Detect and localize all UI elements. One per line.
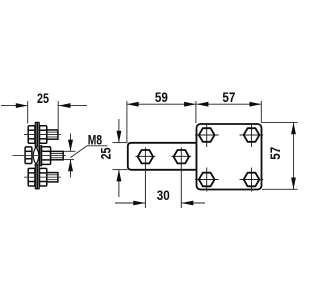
plate hole P3 centerlines bbox=[195, 168, 219, 192]
svg-text:59: 59 bbox=[155, 90, 168, 105]
plate hole P1 centerlines bbox=[195, 123, 219, 147]
bar hole H1 centerlines bbox=[136, 147, 156, 208]
bar hole H1 hex bbox=[138, 150, 153, 163]
bolt 2 nut bbox=[42, 147, 51, 165]
bolt 1 centerline bbox=[24, 134, 61, 136]
bolt 3 shaft bbox=[47, 173, 58, 182]
clamp plate bar 1 (left view) bbox=[35, 122, 37, 189]
dimension 59 (top) bbox=[127, 101, 196, 142]
plate hole P4 hex bbox=[244, 173, 260, 187]
dimension 25 (left of top view, bar width) bbox=[113, 119, 128, 197]
bolt 2 centerline bbox=[13, 155, 67, 157]
svg-text:57: 57 bbox=[268, 147, 283, 160]
bolt 2 shaft bbox=[51, 151, 64, 159]
square plate (top view) bbox=[197, 124, 262, 190]
dimension 30 (bottom) bbox=[115, 202, 205, 204]
plate hole P4 centerlines bbox=[240, 168, 264, 192]
bolt 2 hex head bbox=[25, 147, 32, 164]
bar hole H2 hex bbox=[174, 150, 189, 163]
bolt 3 hex head bbox=[28, 168, 35, 186]
dimension 57 (right side, vertical) bbox=[262, 122, 298, 189]
plate hole P2 centerlines bbox=[240, 123, 264, 147]
dimension 25 (top, bolt length) bbox=[1, 101, 87, 129]
clamp plate bar 2 (left view) bbox=[38, 122, 40, 189]
bar hole H2 centerlines bbox=[171, 147, 191, 208]
tab bar (top view) bbox=[128, 143, 197, 170]
bolt 1 hex head bbox=[28, 126, 35, 144]
M8 leader line bbox=[70, 146, 107, 158]
svg-text:25: 25 bbox=[98, 147, 113, 159]
svg-text:57: 57 bbox=[222, 90, 235, 105]
svg-text:M8: M8 bbox=[88, 132, 102, 148]
plate hole P1 hex bbox=[199, 128, 215, 142]
bolt 1 nut bbox=[40, 126, 47, 144]
svg-text:25: 25 bbox=[37, 91, 49, 106]
svg-text:30: 30 bbox=[157, 188, 170, 203]
bolt 3 centerline bbox=[24, 176, 61, 178]
conductor lens between plates bbox=[33, 146, 39, 166]
bolt 2 washer bbox=[40, 146, 42, 166]
M8 dimension bbox=[64, 134, 76, 178]
bolt 1 shaft bbox=[47, 130, 58, 139]
plate hole P2 hex bbox=[244, 128, 260, 142]
dimension 57 (top) bbox=[197, 101, 262, 123]
bolt 3 nut bbox=[40, 168, 47, 186]
plate hole P3 hex bbox=[199, 173, 215, 187]
